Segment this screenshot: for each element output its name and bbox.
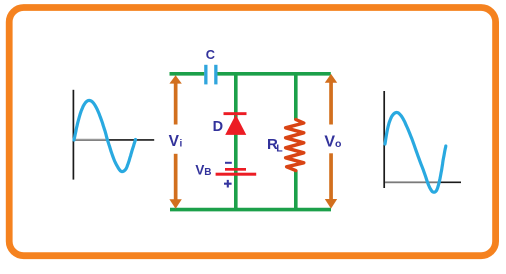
svg-text:V: V: [195, 163, 204, 178]
svg-text:i: i: [180, 138, 183, 149]
svg-text:V: V: [169, 133, 180, 150]
svg-text:L: L: [276, 142, 283, 154]
svg-text:o: o: [335, 138, 341, 150]
svg-text:V: V: [324, 134, 335, 151]
svg-text:C: C: [206, 47, 215, 62]
svg-text:D: D: [213, 119, 223, 135]
svg-text:B: B: [204, 167, 211, 178]
